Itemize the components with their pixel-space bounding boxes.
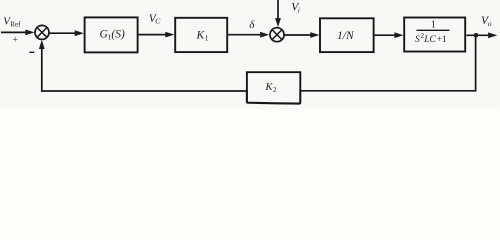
svg-text:δ: δ: [249, 19, 255, 31]
block 1/N: [320, 18, 374, 52]
svg-text:(S): (S): [111, 29, 125, 41]
wire: G1 to K1: [138, 34, 167, 36]
wire: feedback right vertical: [475, 35, 477, 91]
svg-text:1: 1: [205, 33, 209, 42]
summing junction U2 (circle with X): [270, 28, 284, 42]
node: output takeoff junction dot: [474, 33, 479, 38]
wire: V_i disturbance input (vertical): [277, 0, 279, 20]
wire: summer to G1: [49, 32, 76, 34]
wire: feedback left vertical into summer: [41, 44, 43, 92]
summing junction U1 (circle with X): [35, 25, 49, 39]
paper background texture: [0, 0, 500, 109]
svg-text:1/N: 1/N: [337, 30, 355, 42]
minus sign at feedback input: [30, 51, 35, 53]
wire: feedback bottom left horizontal: [41, 90, 247, 92]
svg-text:S: S: [415, 35, 420, 45]
label V_i: [291, 2, 300, 15]
block K2: [247, 72, 300, 103]
label V_o: [481, 15, 492, 28]
label V_C: [149, 13, 162, 26]
svg-text:+1: +1: [437, 35, 447, 45]
label V_Ref: [3, 16, 21, 29]
svg-text:LC: LC: [423, 35, 436, 45]
svg-text:o: o: [488, 19, 492, 28]
block G1(S): [85, 17, 138, 52]
wire: K1 to summer 2: [227, 34, 261, 36]
svg-text:Ref: Ref: [10, 21, 21, 29]
svg-text:i: i: [298, 6, 300, 15]
svg-text:2: 2: [273, 86, 277, 94]
svg-text:+: +: [13, 36, 18, 46]
block K1: [175, 18, 227, 52]
wire: 1/N to LC filter block: [374, 34, 396, 36]
svg-text:1: 1: [431, 19, 436, 30]
block 1/(S^2 LC + 1): [404, 18, 465, 52]
wire: summer 2 to 1/N: [284, 34, 312, 36]
wire: output V_o: [466, 34, 489, 36]
wire: feedback bottom right horizontal: [300, 90, 476, 92]
wire: V_Ref input into summer: [1, 31, 28, 33]
